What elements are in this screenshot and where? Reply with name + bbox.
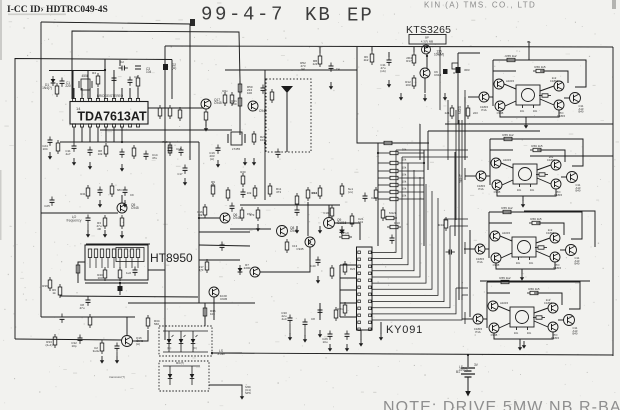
svg-text:R50224100: R50224100 <box>247 85 253 95</box>
wire amp2 bottom <box>497 189 556 196</box>
transistor Q55 <box>548 322 560 340</box>
resistor R65 <box>110 183 122 197</box>
wire ht left <box>78 262 85 283</box>
svg-text:C25: C25 <box>44 204 50 208</box>
svg-text:R66 1k5: R66 1k5 <box>530 217 542 221</box>
transistor Q31 <box>491 158 512 168</box>
wire kts drop <box>371 47 373 51</box>
resistor R25 <box>247 185 257 199</box>
svg-text:C24104: C24104 <box>42 144 48 151</box>
ground gnd U3 <box>379 322 383 341</box>
svg-text:R66 1k5: R66 1k5 <box>528 287 540 291</box>
wire ht290 rail <box>60 296 198 297</box>
capacitor C16 <box>79 297 90 311</box>
capacitor C31 <box>112 75 117 84</box>
svg-text:R10: R10 <box>394 221 400 225</box>
resistor R20 <box>118 267 131 281</box>
diode pair D8-D9 dashed box <box>159 361 209 391</box>
op-amp U1 TDA7613AT <box>70 94 148 127</box>
transistor Q3 <box>117 203 139 213</box>
ground gnd u3 left2 <box>345 344 349 352</box>
wire bus tops <box>396 150 468 295</box>
wire amp2 loop outer <box>490 139 583 185</box>
wire c rail 4 <box>128 302 255 304</box>
capacitor C23 <box>380 57 391 74</box>
resistor amp1 Rb <box>533 65 547 73</box>
svg-text:C4: C4 <box>336 67 340 71</box>
wire c rail 3 <box>199 245 250 246</box>
resistor R7 <box>0 0 162 119</box>
wire amp1 loop inner <box>493 71 568 83</box>
text LO frequency <box>67 215 82 222</box>
svg-text:C1447u: C1447u <box>152 153 158 160</box>
svg-text:R51560: R51560 <box>231 99 237 106</box>
wire second loop <box>72 31 240 99</box>
transistor Q10 <box>422 45 431 54</box>
wire mid drop x199 <box>198 142 200 303</box>
resistor R24 <box>226 187 230 201</box>
transistor Q21 <box>494 79 515 89</box>
wire tda vertical v1 <box>72 70 74 99</box>
capacitor C8 <box>168 145 182 154</box>
wire ht net top <box>86 243 150 245</box>
resistor R45 <box>93 340 104 354</box>
svg-text:R65 1k2: R65 1k2 <box>501 206 513 210</box>
resistor R14 <box>98 143 108 157</box>
text LS label <box>217 349 224 356</box>
svg-text:10k: 10k <box>402 180 407 184</box>
transistor Q6 <box>296 237 315 251</box>
ground gnd kts1 <box>399 93 403 101</box>
svg-text:C11A13B40: C11A13B40 <box>573 326 578 336</box>
resistor ladder R32-R38 <box>378 151 424 200</box>
node ht junction <box>119 282 121 284</box>
wire c rail 1 <box>199 217 220 219</box>
svg-text:C3022u4u0: C3022u4u0 <box>281 311 287 321</box>
svg-text:R2x: R2x <box>222 89 228 93</box>
svg-text:R65 1k2: R65 1k2 <box>502 133 514 137</box>
transistor Q2 <box>248 101 267 113</box>
svg-text:A1015: A1015 <box>506 79 515 83</box>
transistor Q34 <box>492 180 502 194</box>
wire q12 right <box>132 330 148 341</box>
ground gnd amp4 <box>518 339 522 351</box>
wire tda vertical v3 <box>104 60 106 99</box>
capacitor C17 <box>241 189 246 198</box>
wire c rail 2 <box>240 204 340 206</box>
resistor R39 top <box>381 141 395 144</box>
wire amp4 bottom <box>494 332 553 339</box>
transistor Q9 <box>209 287 228 301</box>
svg-text:BRIDGE/STEREO: BRIDGE/STEREO <box>97 94 124 98</box>
capacitor C24 <box>71 335 82 349</box>
resistor R42 <box>405 75 416 89</box>
svg-text:HT8950: HT8950 <box>150 251 193 265</box>
transistor Q36 <box>567 172 581 193</box>
transistor Q23 <box>479 92 489 112</box>
capacitor C30 <box>128 75 139 86</box>
svg-text:R20: R20 <box>240 170 246 174</box>
wire q10 drop <box>426 54 428 68</box>
svg-text:C11A13B40: C11A13B40 <box>575 256 580 266</box>
resistor R11 <box>222 89 228 106</box>
svg-text:(E): (E) <box>167 346 171 350</box>
svg-text:R40104: R40104 <box>97 273 103 280</box>
resistor amp2 Ra <box>501 133 515 141</box>
wire amp1 B+ stub <box>527 40 531 60</box>
capacitor C13 <box>276 149 281 158</box>
capacitor C26 <box>60 314 65 323</box>
svg-text:I-CC ID› HDTRC049-4S: I-CC ID› HDTRC049-4S <box>7 5 108 15</box>
svg-text:R17470: R17470 <box>198 265 204 272</box>
wire right h124 <box>445 123 613 125</box>
svg-text:KB: KB <box>305 4 332 26</box>
wire u1 bottom rail <box>100 129 232 131</box>
capacitor C2 <box>119 60 128 71</box>
ground gnd x2c <box>252 158 256 166</box>
resistor R31 <box>374 187 378 201</box>
resistor R21 <box>76 262 80 276</box>
capacitor C35 <box>177 165 187 177</box>
svg-text:R66 1k5: R66 1k5 <box>531 144 543 148</box>
text bottom handwritten note <box>383 399 620 410</box>
resistor R74 <box>313 47 322 67</box>
capacitor C22 <box>322 331 332 345</box>
wire tda top rail <box>49 70 105 72</box>
wire q1 down <box>205 120 207 126</box>
wire amp rail segC <box>464 97 466 160</box>
wire amp rail segA <box>454 152 456 236</box>
svg-text:B+: B+ <box>527 40 531 44</box>
wire bus verticals upper <box>440 47 462 300</box>
resistor R55 <box>92 71 100 87</box>
ground gnd far right <box>522 341 526 349</box>
ground gnd amp2 <box>521 196 525 208</box>
transistor Q11 <box>420 68 442 78</box>
wire amp4 loop inner <box>487 293 562 305</box>
wire kts left <box>413 47 415 52</box>
svg-text:R33(2+1): R33(2+1) <box>45 340 52 347</box>
ground gnd c area2 <box>318 226 322 234</box>
resistor R54 <box>136 75 140 89</box>
wire amp3 loop inner <box>489 223 564 235</box>
svg-text:R11473: R11473 <box>276 187 282 194</box>
wire mid h232 <box>199 231 250 233</box>
resistor R15 <box>132 145 136 159</box>
ground gnd c27 <box>288 333 292 341</box>
resistor amp4 Rc <box>533 316 545 319</box>
capacitor C19 <box>340 227 345 236</box>
svg-text:C17: C17 <box>177 172 183 176</box>
ground gnd Q1 <box>204 124 208 132</box>
ground gnd bl2 <box>115 356 119 364</box>
transistor Q5 <box>277 226 298 237</box>
ground gnd row2 <box>123 200 127 208</box>
wire u3 left pins <box>340 265 357 317</box>
transistor Q1 <box>201 98 222 109</box>
wire u3 bottom leads <box>359 330 363 347</box>
svg-text:R36: R36 <box>42 284 48 288</box>
diode D3 <box>118 286 123 291</box>
wire outer loop top <box>41 22 190 142</box>
resistor R23 <box>211 180 216 197</box>
wire amp3 bottom <box>496 262 555 269</box>
transistor Q54 <box>489 323 499 337</box>
wire v420 <box>419 124 421 160</box>
resistor R63 <box>438 217 447 231</box>
op-amp amp2 mid cell <box>513 164 537 192</box>
wire bottom-left rail A <box>41 316 135 318</box>
node junction dots <box>104 55 469 356</box>
wire ht drop <box>119 283 121 295</box>
ground gnd x2a <box>216 160 220 168</box>
svg-text:2R4R17: 2R4R17 <box>406 56 412 63</box>
svg-text:KIN (A) TMS. CO., LTD: KIN (A) TMS. CO., LTD <box>424 1 536 10</box>
capacitor C37 <box>98 187 103 196</box>
svg-text:(C): (C) <box>193 346 197 350</box>
transistor Q12 <box>122 336 144 347</box>
capacitor C3 <box>135 66 152 74</box>
transistor Q7 <box>324 218 347 229</box>
svg-text:R19: R19 <box>162 140 168 144</box>
wire amp rail segD <box>469 230 471 317</box>
svg-text:R65 1k2: R65 1k2 <box>499 276 511 280</box>
wire amp4 top rail <box>480 280 590 282</box>
wire amp2 left feed <box>465 175 476 177</box>
wire amp1 hookups <box>489 84 570 106</box>
wire u1 right rail <box>148 107 204 109</box>
resistor R71 <box>285 239 297 253</box>
svg-text:C1147u(xA): C1147u(xA) <box>380 63 386 73</box>
ground gnd lc1 <box>48 152 52 160</box>
wire amp4 hookups <box>483 306 564 328</box>
text LS GN label <box>459 365 468 372</box>
wire bus weave KY091 to amps <box>372 150 462 320</box>
transistor Q46 <box>566 245 580 266</box>
capacitor C33 <box>44 197 54 209</box>
resistor R57 <box>42 277 52 291</box>
ground gnd pins1 <box>72 158 76 166</box>
capacitor C21 <box>345 331 350 340</box>
transistor Q33 <box>476 171 486 191</box>
wire q3 up <box>121 195 123 203</box>
svg-text:A1015: A1015 <box>502 231 511 235</box>
svg-text:R1610k: R1610k <box>197 210 203 217</box>
ground gnd mid1 <box>256 224 260 232</box>
svg-text:NOTE: DRIVE 5MW NB R-BAT: NOTE: DRIVE 5MW NB R-BAT <box>383 399 620 410</box>
diode D11 <box>238 265 243 275</box>
svg-text:A1015: A1015 <box>500 301 509 305</box>
wire main box left <box>164 46 166 340</box>
capacitor C10 <box>179 147 184 156</box>
text ladder values <box>402 148 407 198</box>
node kts <box>426 46 428 48</box>
resistor R70 <box>198 259 208 273</box>
wire amp2 right out <box>530 155 613 157</box>
svg-text:C9: C9 <box>130 193 134 197</box>
capacitor C32 <box>42 137 52 152</box>
svg-text:C945: C945 <box>296 247 304 251</box>
wire mid h260 <box>199 259 240 261</box>
resistor R16 <box>252 131 266 145</box>
text bl note <box>109 375 125 379</box>
svg-text:C20: C20 <box>310 264 316 268</box>
transistor Q53 <box>473 314 483 334</box>
op-amp amp3 mid cell <box>512 237 536 265</box>
resistor R56 <box>56 140 60 154</box>
capacitor C4 <box>65 143 76 157</box>
resistor R53 <box>339 231 352 239</box>
wire amp feeds vertical <box>464 90 466 324</box>
svg-text:R66 1k5: R66 1k5 <box>534 65 546 69</box>
svg-text:99-4-7: 99-4-7 <box>201 4 285 26</box>
transistor Q51 <box>488 301 509 311</box>
resistor R6 on rail <box>231 95 242 109</box>
op-amp amp1 mid cell <box>516 85 540 113</box>
svg-text:A1015: A1015 <box>503 158 512 162</box>
ground gnd r18 <box>120 231 124 239</box>
wire q12 up <box>126 317 128 336</box>
svg-text:10n: 10n <box>527 331 532 335</box>
text rotated label B <box>459 174 463 183</box>
resistor R13 <box>270 89 274 103</box>
svg-text:M12L: M12L <box>389 211 397 215</box>
svg-text:C11A13B40: C11A13B40 <box>576 183 581 193</box>
capacitor C28 <box>303 317 316 336</box>
capacitor C34 <box>230 203 235 212</box>
text right small label <box>0 0 1 1</box>
wire ht chain <box>148 269 165 271</box>
resistor R58 <box>240 170 246 187</box>
wire v265 <box>264 70 266 200</box>
ground gnd amp3 <box>520 269 524 281</box>
svg-text:KY091: KY091 <box>386 324 423 336</box>
wire q7 right <box>334 223 360 240</box>
capacitor C36 <box>446 250 455 255</box>
wire kts drop2 <box>388 52 390 57</box>
ground gnd r17 <box>103 230 107 238</box>
wire tda top link <box>119 60 121 66</box>
wire amp1 loop outer <box>493 60 586 106</box>
transistor Q45 <box>550 252 562 270</box>
wire amp3 loop outer <box>489 212 582 258</box>
capacitor C40 <box>310 257 320 269</box>
diode D2 <box>163 63 176 70</box>
wire q4 to q5 <box>230 228 271 230</box>
resistor R48 <box>203 305 216 319</box>
wire bottom-left rail B <box>15 339 122 340</box>
resistor R5 on rail <box>238 81 253 95</box>
svg-text:455k: 455k <box>82 74 89 78</box>
svg-text:10k: 10k <box>402 187 407 191</box>
wire amp4 left feed <box>462 318 473 320</box>
wire u3 left drop <box>339 265 341 317</box>
ground gnd pins2 <box>88 162 92 170</box>
wire ladder left rail <box>377 143 379 246</box>
wire kts right loop <box>458 53 480 124</box>
ground gnd u3a <box>318 330 322 338</box>
wire tda vertical v4 <box>113 70 115 99</box>
resistor R62 <box>162 140 171 156</box>
wire ht bottom rail <box>85 282 148 284</box>
ground gnd kts4 <box>387 80 391 88</box>
transistor Q24 <box>495 101 505 115</box>
resistor R44 <box>45 334 56 348</box>
resistor amp2 Rc <box>536 173 548 176</box>
ground gnd pins3 <box>120 164 124 172</box>
svg-text:223: 223 <box>473 111 478 115</box>
svg-text:10k: 10k <box>402 173 407 177</box>
svg-text:C8: C8 <box>311 317 315 321</box>
svg-text:R34560: R34560 <box>154 319 160 326</box>
ground gnd x2b <box>243 158 247 166</box>
wire amp1 bottom <box>500 110 559 117</box>
crystal X2 ceramic filter <box>228 132 245 151</box>
capacitor C38 <box>123 187 135 198</box>
svg-text:10k: 10k <box>402 148 407 152</box>
capacitor C15 <box>133 267 138 276</box>
transistor Q25 <box>554 100 566 118</box>
transistor Q8 <box>244 263 260 277</box>
transistor Q35 <box>551 179 563 197</box>
capacitor C25 <box>115 343 120 357</box>
resistor R12 <box>230 92 234 106</box>
wire left mid rail <box>41 212 118 214</box>
capacitor C9 <box>261 85 266 94</box>
svg-text:10k: 10k <box>402 194 407 198</box>
transistor Q22 <box>550 76 564 91</box>
wire h rail 142 <box>60 141 199 143</box>
transistor Q4 <box>220 213 241 223</box>
svg-text:10n: 10n <box>514 331 519 335</box>
svg-text:4.3(?) MB: 4.3(?) MB <box>421 40 433 44</box>
resistor R9 <box>178 107 182 121</box>
svg-text:10k: 10k <box>402 158 407 162</box>
svg-text:EP: EP <box>347 5 374 27</box>
text U3 KY091 label <box>386 324 423 336</box>
capacitor C5 <box>88 147 93 156</box>
svg-text:R?: R? <box>453 71 457 75</box>
resistor R22 <box>52 284 62 298</box>
text sheet title 99-4-7 KB EP <box>190 4 374 27</box>
transistor Q26 <box>570 93 584 114</box>
transistor Q42 <box>546 228 560 243</box>
wire q8 branch <box>260 247 310 272</box>
ground gnd mid2 <box>340 226 344 234</box>
resistor R8 <box>168 105 172 119</box>
svg-text:6u1(xx): 6u1(xx) <box>348 187 353 194</box>
text q10 label <box>434 50 444 57</box>
svg-text:C114u7: C114u7 <box>65 149 71 156</box>
resistor R17 <box>96 215 106 231</box>
wire amp3 hookups <box>485 236 566 258</box>
resistor R47 <box>146 315 160 329</box>
resistor R29 <box>340 183 353 197</box>
svg-text:C13: C13 <box>292 244 298 248</box>
resistor R1 <box>55 83 59 97</box>
resistor R61 <box>323 205 333 219</box>
crystal X1 <box>79 74 92 90</box>
ground gnd kts3 <box>443 93 447 101</box>
svg-text:10n: 10n <box>533 109 538 113</box>
resistor R30 <box>350 213 364 227</box>
resistor R40 <box>337 302 347 316</box>
transistor Q56 <box>564 315 578 336</box>
resistor amp3 Ra <box>500 206 514 214</box>
wire amp1 left feed <box>468 96 479 98</box>
svg-text:3R3: 3R3 <box>464 68 470 72</box>
svg-text:MOSI: MOSI <box>458 106 462 114</box>
